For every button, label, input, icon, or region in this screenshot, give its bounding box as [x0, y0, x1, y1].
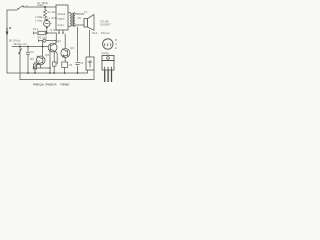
svg-text:ampl: ampl	[58, 23, 64, 27]
svg-text:Q1: Q1	[57, 39, 61, 43]
svg-text:Q3: Q3	[70, 46, 74, 50]
svg-text:TIPNO: TIPNO	[60, 82, 70, 86]
svg-text:Pinout: Pinout	[101, 31, 110, 35]
svg-text:Q2: Q2	[45, 53, 49, 57]
svg-text:1 whd: 1 whd	[35, 18, 43, 22]
svg-text:Lx 4mH: Lx 4mH	[48, 16, 57, 20]
svg-text:PNODA: PNODA	[46, 82, 58, 86]
svg-text:8Ω: 8Ω	[78, 17, 81, 20]
svg-text:E: E	[115, 46, 117, 50]
svg-text:Rx 1kΩ: Rx 1kΩ	[48, 10, 57, 14]
svg-text:PL1: PL1	[33, 27, 39, 31]
svg-text:Modul: Modul	[58, 12, 66, 16]
svg-text:PNEQA: PNEQA	[33, 82, 45, 86]
svg-text:C2: C2	[30, 50, 34, 54]
svg-text:C3: C3	[36, 59, 40, 63]
svg-text:R3: R3	[30, 57, 34, 61]
svg-text:LS: LS	[84, 10, 87, 14]
svg-text:Ix 4m: Ix 4m	[50, 28, 58, 32]
svg-text:C4: C4	[80, 61, 84, 65]
svg-text:4x2W: 4x2W	[37, 3, 44, 7]
svg-text:S14: S14	[92, 31, 98, 35]
svg-text:2N2907: 2N2907	[100, 23, 111, 27]
svg-text:Vibrato circ: Vibrato circ	[13, 42, 28, 46]
svg-text:TIP30: TIP30	[101, 52, 109, 56]
svg-text:ugual: ugual	[58, 17, 65, 21]
svg-text:C5: C5	[69, 63, 73, 67]
svg-text:R5 220: R5 220	[38, 36, 48, 40]
